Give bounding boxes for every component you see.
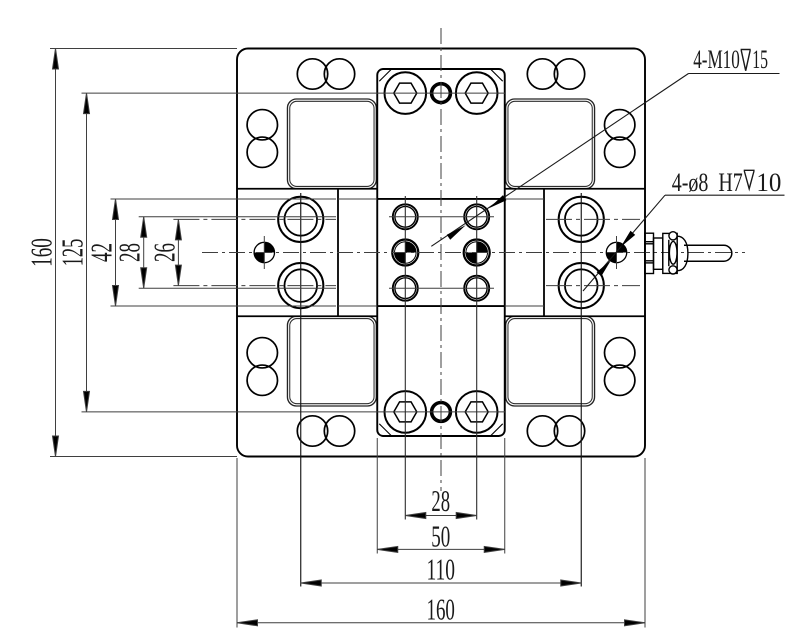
svg-text:50: 50 (431, 518, 450, 553)
svg-text:28: 28 (431, 483, 450, 518)
dim line 42 left (113, 199, 119, 306)
column centerline left (404, 196, 406, 520)
arm hole upper-left (278, 197, 323, 242)
block hole crosshair upper (389, 216, 494, 218)
row line 28 upper (139, 216, 336, 218)
ext line 42 lower (111, 305, 337, 307)
label 4-M10 depth 15 (693, 45, 768, 74)
arm hole centerline 26 lower-left (173, 285, 336, 287)
thick ring bottom (432, 403, 451, 422)
arm step right (543, 189, 545, 317)
peanut slot right-lower (605, 338, 635, 396)
beam edge thin upper left (338, 198, 377, 200)
arm step left (337, 189, 339, 317)
dim line 160 left (53, 49, 59, 457)
dim line 26 left (175, 219, 181, 285)
pocket top-left inner (290, 101, 374, 186)
dowel hole left edge (quadrant symbol) (254, 236, 274, 269)
svg-text:110: 110 (426, 551, 455, 586)
arm hole vertical centerline right (580, 193, 582, 587)
peanut slot bottom-left (297, 416, 354, 446)
peanut slot right-upper (605, 110, 635, 168)
M10 hole bottom-right (464, 276, 489, 301)
svg-text:160: 160 (427, 591, 455, 626)
label 4-O8 H7 depth 10 (672, 168, 782, 197)
peanut slot top-left (297, 59, 354, 89)
ext line 160 bottom-right (644, 458, 646, 628)
hex socket screw top-right (456, 72, 498, 114)
block chamfer top-left (379, 69, 391, 81)
dim line 110 bottom (301, 580, 582, 586)
leader 4-O8 (583, 195, 785, 291)
peanut slot left-upper (247, 110, 277, 168)
pocket bottom-left outer (287, 316, 376, 406)
peanut slot top-right (527, 59, 584, 89)
vertical centerline (440, 28, 442, 491)
block hole crosshair lower (389, 287, 494, 289)
dowel hole mid-right (quadrant symbol) (464, 240, 490, 266)
cable gland body (654, 238, 663, 269)
column centerline right (476, 196, 478, 520)
pocket bottom-right inner (508, 319, 592, 404)
hex row centerline bottom (82, 411, 506, 413)
M10 hole top-right (464, 204, 489, 229)
arm hole centerline lower-right (546, 285, 640, 287)
cable gland flange (645, 233, 654, 273)
svg-text:4-ø8 H7: 4-ø8 H7 (672, 168, 743, 197)
ext line 160 top (50, 48, 237, 50)
pocket bottom-left inner (290, 319, 374, 404)
hex row centerline top (82, 92, 506, 94)
arm hole lower-right (559, 263, 604, 308)
peanut slot left-lower (247, 338, 277, 396)
beam edge thin upper right (505, 198, 544, 200)
leader 4-M10 (431, 74, 779, 247)
ext line 160 bottom-left (236, 458, 238, 628)
M10 hole bottom-left (393, 276, 418, 301)
horizontal arm top edge right (505, 188, 645, 190)
arm hole vertical centerline left (300, 193, 302, 587)
cable gland hex nut (663, 232, 677, 274)
dim line 28 left (141, 217, 147, 288)
horizontal centerline (202, 252, 745, 254)
dim line 125 left (84, 93, 90, 412)
horizontal arm top edge left (237, 188, 377, 190)
block chamfer top-right (491, 69, 503, 81)
row line 28 lower (139, 287, 336, 289)
svg-text:26: 26 (146, 243, 181, 262)
hex socket screw bottom-right (456, 391, 498, 433)
hex socket screw top-left (385, 72, 427, 114)
arm hole centerline upper-right (546, 218, 640, 220)
horizontal arm bottom edge right (505, 315, 645, 317)
pocket top-right outer (506, 99, 595, 189)
svg-text:15: 15 (752, 45, 768, 74)
thick ring top (432, 84, 451, 103)
ext line 42 upper (111, 198, 337, 200)
pocket top-left outer (287, 99, 376, 189)
dim line 28 bottom (405, 513, 476, 519)
central block (377, 69, 505, 436)
dim line 160 bottom (237, 620, 645, 626)
svg-text:4-M10: 4-M10 (693, 45, 740, 74)
beam edge thin lower left (338, 305, 377, 307)
arm hole centerline 26 upper-left (173, 218, 336, 220)
gauge section line lower (thick across block) (377, 305, 505, 307)
cable gland dome (677, 236, 688, 271)
dowel hole mid-left (quadrant symbol) (392, 240, 418, 266)
plate outline 160x160 (237, 49, 645, 457)
svg-text:160: 160 (24, 238, 59, 267)
ext line 160 bottom (50, 456, 237, 458)
block chamfer bottom-right (491, 424, 503, 436)
cable (684, 245, 732, 261)
dim line 50 bottom (377, 546, 505, 552)
horizontal arm bottom edge left (237, 315, 377, 317)
gauge section line upper (thick across block) (377, 198, 505, 200)
ext line 50 left (376, 438, 378, 554)
beam edge thin lower right (505, 305, 544, 307)
svg-text:28: 28 (112, 243, 147, 262)
dowel hole right edge (quadrant symbol) (606, 236, 626, 269)
M10 hole top-left (393, 204, 418, 229)
pocket top-right inner (508, 101, 592, 186)
ext line 50 right (504, 438, 506, 554)
pocket bottom-right outer (506, 316, 595, 406)
svg-text:10: 10 (756, 168, 781, 197)
arm hole lower-left (278, 263, 323, 308)
peanut slot bottom-right (527, 416, 584, 446)
block chamfer bottom-left (379, 424, 391, 436)
hex socket screw bottom-left (385, 391, 427, 433)
arm hole upper-right (559, 197, 604, 242)
